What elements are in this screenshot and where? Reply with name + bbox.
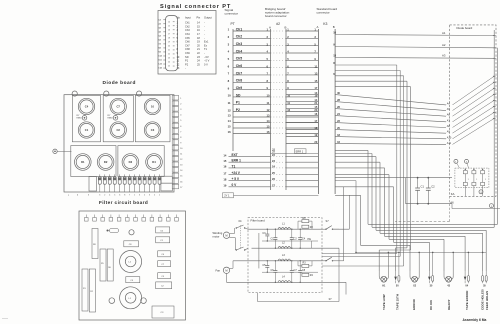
svg-text:2: 2 bbox=[154, 194, 155, 196]
wire filter cap mid rail upper bbox=[262, 240, 318, 242]
svg-text:D1: D1 bbox=[81, 160, 85, 164]
svg-text:13: 13 bbox=[180, 165, 183, 167]
svg-text:A9: A9 bbox=[447, 131, 451, 134]
svg-text:10: 10 bbox=[287, 94, 290, 98]
capacitor C6 filter bbox=[271, 260, 278, 283]
wire bus net 8 from row to lamp column bbox=[335, 195, 410, 271]
svg-text:22: 22 bbox=[197, 51, 200, 55]
svg-text:C7: C7 bbox=[161, 264, 165, 266]
svg-text:27: 27 bbox=[272, 183, 275, 187]
mounting hole top 1 bbox=[72, 91, 77, 96]
svg-text:13: 13 bbox=[333, 54, 336, 58]
svg-text:17: 17 bbox=[314, 86, 317, 90]
svg-text:4: 4 bbox=[109, 194, 110, 196]
svg-text:C2: C2 bbox=[294, 238, 298, 241]
wire connector #2 to K3 row 20 bbox=[286, 140, 318, 144]
svg-text:L3: L3 bbox=[282, 254, 285, 257]
svg-text:10: 10 bbox=[180, 148, 183, 150]
svg-text:15: 15 bbox=[267, 125, 270, 129]
svg-text:15: 15 bbox=[223, 159, 226, 163]
wire signal P1 PT pin 11 to connector #2 to K3 bbox=[228, 101, 319, 105]
diode D2 can bbox=[97, 154, 114, 171]
board bottom pin labels bbox=[68, 194, 89, 196]
svg-text:8: 8 bbox=[124, 194, 125, 196]
svg-text:15: 15 bbox=[168, 26, 170, 28]
svg-text:C9: C9 bbox=[130, 280, 134, 282]
svg-text:14: 14 bbox=[223, 153, 226, 157]
wire tall vertical net K3-B row to filter 3 bbox=[322, 72, 404, 266]
label PT pin 28 bbox=[272, 147, 275, 151]
lamp H1 TAPE LOW bbox=[379, 253, 388, 288]
svg-text:5: 5 bbox=[228, 57, 230, 61]
svg-text:1: 1 bbox=[180, 98, 182, 100]
svg-text:L1: L1 bbox=[129, 298, 132, 300]
svg-text:- 0V: - 0V bbox=[204, 55, 209, 59]
wire bus net 4 from row to lamp column bbox=[335, 162, 483, 271]
svg-text:A7: A7 bbox=[447, 119, 451, 122]
svg-text:18: 18 bbox=[223, 177, 226, 181]
page bottom edge mark bbox=[2, 318, 8, 320]
svg-text:-: - bbox=[204, 25, 205, 28]
svg-text:13: 13 bbox=[314, 72, 317, 76]
svg-text:Input: Input bbox=[185, 15, 191, 19]
svg-text:12: 12 bbox=[267, 108, 270, 112]
hole right of L1 bbox=[141, 298, 147, 304]
svg-text:-: - bbox=[204, 22, 205, 25]
svg-text:26: 26 bbox=[272, 177, 275, 181]
svg-text:3A: 3A bbox=[158, 27, 161, 30]
svg-text:DC ON: DC ON bbox=[429, 300, 433, 310]
svg-text:11: 11 bbox=[180, 154, 183, 156]
relay socket squares bottom right bbox=[161, 176, 172, 191]
capacitor C8 layout bbox=[124, 241, 139, 247]
fuse 50 TAPE 15TH bbox=[394, 253, 400, 288]
svg-text:19: 19 bbox=[168, 42, 170, 44]
connector #2 line B bbox=[285, 29, 287, 190]
label bridging board system adaptation board connector bbox=[265, 7, 290, 18]
wire PT pin 14 to connector #2 bbox=[228, 119, 319, 123]
connector J1 D-sub shell bbox=[166, 16, 178, 71]
capacitor C3 filter bbox=[262, 229, 269, 242]
wire +24 V row bbox=[223, 171, 318, 175]
svg-text:7: 7 bbox=[177, 43, 179, 47]
filter board dashed enclosure bbox=[248, 218, 322, 293]
capacitor C2 bbox=[426, 177, 435, 205]
svg-text:25: 25 bbox=[272, 171, 275, 175]
svg-text:3: 3 bbox=[180, 109, 182, 111]
svg-text:A5: A5 bbox=[447, 108, 451, 111]
svg-text:M: M bbox=[225, 268, 227, 272]
node circled 2 above diode module bbox=[465, 159, 469, 168]
svg-text:9: 9 bbox=[228, 86, 230, 90]
inductor L2 layout bbox=[120, 251, 142, 273]
svg-text:B: B bbox=[333, 25, 335, 29]
capacitor C2 filter bbox=[290, 229, 298, 249]
wire signal P2 PT pin 12 to connector #2 to K3 bbox=[228, 108, 319, 112]
svg-text:17: 17 bbox=[223, 171, 226, 175]
svg-text:7: 7 bbox=[228, 72, 230, 76]
label A6 node bbox=[450, 201, 454, 205]
svg-text:Ch3: Ch3 bbox=[236, 42, 243, 46]
diode group box lower 2 bbox=[118, 146, 164, 177]
svg-text:9: 9 bbox=[177, 51, 179, 55]
svg-text:ERROR: ERROR bbox=[412, 298, 416, 310]
resistor R1 layout bbox=[82, 269, 88, 311]
wire A7 from K3 to diode board bbox=[335, 94, 495, 122]
svg-text:24: 24 bbox=[197, 59, 200, 63]
svg-text:KA: KA bbox=[451, 192, 455, 196]
wire signal Ch8 PT pin 8 to connector #2 to K3 bbox=[228, 79, 319, 83]
svg-text:P1: P1 bbox=[236, 101, 240, 105]
diode unit D7 in module bbox=[481, 169, 486, 186]
wire A5 from K3 to diode board bbox=[335, 82, 495, 111]
svg-text:2: 2 bbox=[104, 194, 105, 196]
svg-text:Filter circuit board: Filter circuit board bbox=[99, 200, 148, 205]
svg-text:RM61: RM61 bbox=[108, 118, 113, 120]
wire filter rail 2 bbox=[252, 247, 323, 249]
svg-text:Pin: Pin bbox=[197, 15, 201, 19]
svg-text:11: 11 bbox=[314, 64, 317, 68]
svg-text:3: 3 bbox=[149, 194, 150, 196]
label connector #2 bbox=[276, 22, 280, 26]
svg-text:TAPE 15TH: TAPE 15TH bbox=[395, 294, 399, 310]
svg-text:23: 23 bbox=[197, 55, 200, 59]
svg-text:21: 21 bbox=[197, 47, 200, 51]
wire connector #2 to K3 row 15 bbox=[286, 105, 318, 109]
svg-text:K3: K3 bbox=[323, 22, 327, 26]
capacitor C7 can bbox=[110, 98, 126, 114]
wire connector #2 to K3 row 16 bbox=[286, 112, 318, 116]
svg-text:55: 55 bbox=[483, 285, 486, 288]
svg-text:-: - bbox=[204, 33, 205, 36]
svg-text:Ch4: Ch4 bbox=[236, 49, 243, 53]
svg-text:25: 25 bbox=[197, 62, 200, 66]
svg-text:14: 14 bbox=[228, 119, 231, 123]
lamp 43 READY bbox=[444, 253, 453, 288]
table header row bbox=[177, 15, 213, 19]
capacitor C1 bbox=[415, 177, 424, 205]
resistor R8 layout bbox=[92, 229, 98, 259]
svg-text:#2: #2 bbox=[276, 22, 280, 26]
svg-text:18: 18 bbox=[197, 36, 200, 40]
wire bus net 2 from row to lamp column bbox=[335, 154, 494, 228]
wire A9 from K3 to diode board bbox=[335, 106, 495, 133]
svg-text:24: 24 bbox=[168, 62, 170, 64]
diode D3 can bbox=[122, 154, 139, 171]
svg-text:-: - bbox=[204, 52, 205, 55]
label filter board bbox=[251, 218, 266, 222]
svg-text:T1: T1 bbox=[232, 164, 236, 168]
svg-text:C1: C1 bbox=[160, 240, 164, 242]
svg-text:L1: L1 bbox=[282, 223, 285, 226]
label standard board connector bbox=[317, 7, 338, 15]
wire PT pin 16 to connector #2 bbox=[228, 130, 319, 134]
wire A6 from K3 to diode board bbox=[335, 88, 495, 116]
label lamp CODE HOLES/ bbox=[481, 289, 485, 310]
svg-text:14: 14 bbox=[267, 119, 270, 123]
svg-text:13A: 13A bbox=[158, 67, 162, 70]
svg-text:D3: D3 bbox=[129, 160, 133, 164]
svg-text:11: 11 bbox=[228, 101, 231, 105]
svg-text:-: - bbox=[204, 29, 205, 32]
resistor R1 filter bbox=[298, 217, 312, 229]
svg-text:Ch9: Ch9 bbox=[185, 51, 190, 55]
wire filter rail4 exit bbox=[322, 282, 346, 294]
svg-text:6: 6 bbox=[228, 64, 230, 68]
svg-text:- 0 V: - 0 V bbox=[204, 59, 210, 63]
svg-text:C8: C8 bbox=[302, 269, 306, 272]
svg-text:1: 1 bbox=[476, 179, 477, 181]
svg-text:+ 5 V: + 5 V bbox=[232, 177, 240, 181]
label connector PT bbox=[231, 22, 235, 26]
svg-text:43: 43 bbox=[447, 285, 450, 288]
svg-text:L2: L2 bbox=[282, 242, 285, 245]
svg-text:25: 25 bbox=[168, 66, 170, 68]
wire signal Ch1 PT pin 1 to connector #2 to K3 bbox=[228, 27, 319, 31]
label connector #2 column A bbox=[269, 26, 271, 30]
svg-text:connector: connector bbox=[225, 12, 239, 16]
svg-text:Ch8: Ch8 bbox=[185, 47, 190, 51]
svg-text:ERR 1: ERR 1 bbox=[232, 159, 242, 163]
svg-text:TAPE LOW: TAPE LOW bbox=[382, 294, 386, 310]
svg-text:10: 10 bbox=[228, 94, 232, 98]
wire connector #2 to K3 row 18 bbox=[286, 126, 318, 130]
capacitor C9 layout bbox=[126, 277, 140, 283]
svg-text:3: 3 bbox=[177, 28, 179, 32]
capacitor C2 can bbox=[110, 122, 126, 138]
connector block bottom left of diode strip bbox=[89, 177, 97, 192]
motor M2 fan bbox=[216, 267, 230, 273]
svg-text:16: 16 bbox=[267, 130, 270, 134]
svg-text:D4: D4 bbox=[152, 160, 156, 164]
svg-text:connector: connector bbox=[317, 11, 330, 15]
label lamp DC ON bbox=[429, 300, 433, 310]
svg-text:-: - bbox=[185, 67, 186, 70]
connector J1 pin labels left bbox=[158, 19, 165, 70]
svg-text:5: 5 bbox=[114, 194, 115, 196]
svg-text:9A: 9A bbox=[158, 51, 161, 54]
svg-text:Ch2: Ch2 bbox=[185, 24, 190, 28]
svg-text:Ch3: Ch3 bbox=[185, 28, 190, 32]
diode D4 can bbox=[146, 154, 163, 171]
svg-text:TAPE ERROR: TAPE ERROR bbox=[465, 290, 469, 310]
svg-text:Diode board: Diode board bbox=[457, 26, 473, 30]
node circled 3 below diode module bbox=[479, 190, 483, 194]
svg-text:14: 14 bbox=[180, 170, 183, 172]
svg-text:6: 6 bbox=[119, 194, 120, 196]
svg-text:15: 15 bbox=[180, 176, 183, 178]
svg-text:M: M bbox=[225, 233, 227, 237]
svg-text:Ch5: Ch5 bbox=[185, 36, 190, 40]
label lamp FEED HOLES bbox=[485, 291, 489, 310]
svg-text:1: 1 bbox=[134, 194, 135, 196]
wire diode module outputs bbox=[465, 186, 482, 197]
wire S7 exit vertical up bbox=[333, 195, 350, 229]
wire connector #2 to K3 row 14 bbox=[286, 98, 318, 102]
svg-text:23: 23 bbox=[272, 159, 275, 163]
svg-text:C3: C3 bbox=[262, 232, 266, 235]
wire PT pin 13 to connector #2 bbox=[228, 114, 319, 118]
svg-text:X2: X2 bbox=[413, 285, 417, 288]
svg-text:3: 3 bbox=[88, 194, 89, 196]
svg-text:17: 17 bbox=[180, 187, 183, 189]
wire tall vertical net K3-B row to filter 2 bbox=[322, 70, 400, 256]
svg-text:10: 10 bbox=[177, 55, 180, 59]
wire common return rail with junction dots bbox=[335, 181, 486, 254]
svg-text:+24 V: +24 V bbox=[232, 171, 241, 175]
svg-text:16: 16 bbox=[228, 130, 231, 134]
wire bus net 9 from row to lamp column bbox=[335, 81, 407, 271]
label 3Y bbox=[329, 297, 332, 301]
svg-text:28: 28 bbox=[272, 147, 275, 151]
svg-text:-: - bbox=[204, 37, 205, 40]
wire fan to rail 3 bbox=[230, 261, 252, 269]
svg-text:A4: A4 bbox=[447, 102, 451, 105]
svg-text:1: 1 bbox=[468, 179, 469, 181]
svg-text:18: 18 bbox=[168, 38, 170, 40]
wire bus net 3 from row to lamp column bbox=[335, 157, 486, 271]
svg-text:A8: A8 bbox=[447, 125, 451, 128]
inductor L1 layout bbox=[120, 287, 142, 309]
svg-text:8: 8 bbox=[177, 47, 179, 51]
resistor R3 filter bbox=[298, 261, 312, 268]
svg-text:2: 2 bbox=[228, 35, 230, 39]
filter board top connector pads bbox=[85, 215, 179, 222]
capacitor C4 can bbox=[78, 98, 94, 114]
svg-text:16: 16 bbox=[197, 28, 200, 32]
switch S4 ganged link dashed bbox=[239, 225, 241, 249]
svg-text:Ch5: Ch5 bbox=[236, 57, 243, 61]
capacitor C4 filter bbox=[298, 229, 306, 249]
fuse 55 CODE HOLES FEED HOLES pair bbox=[482, 271, 488, 288]
svg-text:8A: 8A bbox=[158, 47, 161, 50]
connector #2 line A bbox=[270, 29, 272, 190]
svg-text:R4: R4 bbox=[310, 274, 314, 277]
svg-text:FEED HOLES: FEED HOLES bbox=[485, 291, 489, 310]
wire signal Ch7 PT pin 7 to connector #2 to K3 bbox=[228, 71, 319, 75]
switch S8 lower right bbox=[322, 257, 344, 261]
svg-text:7: 7 bbox=[129, 194, 130, 196]
wire signal Ch6 PT pin 6 to connector #2 to K3 bbox=[228, 64, 319, 68]
capacitor group box 2 bbox=[103, 95, 133, 141]
capacitor C5 filter bbox=[262, 260, 269, 273]
wire KA output rail bbox=[452, 204, 500, 209]
wire filter cap mid rail lower bbox=[262, 271, 318, 273]
wire bus net 7 from row to lamp column bbox=[335, 187, 429, 271]
svg-text:3: 3 bbox=[139, 194, 140, 196]
inductor L3 filter bbox=[278, 254, 291, 261]
capacitor C3 layout bbox=[152, 306, 174, 318]
resistor R2 filter bbox=[302, 225, 314, 229]
label lamp TAPE LOW bbox=[382, 294, 386, 310]
svg-text:R1: R1 bbox=[83, 288, 86, 290]
wire connector #2 to K3 row 13 bbox=[286, 91, 318, 95]
diode strip D5-D17 bbox=[98, 174, 161, 196]
svg-text:22: 22 bbox=[272, 153, 275, 157]
label diode board (right) bbox=[457, 26, 473, 30]
svg-text:A11: A11 bbox=[447, 142, 452, 145]
wire filter rail 4 bbox=[248, 281, 322, 283]
svg-text:1: 1 bbox=[485, 179, 486, 181]
svg-text:C4: C4 bbox=[85, 105, 89, 109]
wire A10 from K3 to diode board bbox=[335, 112, 495, 139]
svg-text:19: 19 bbox=[197, 40, 200, 44]
svg-text:19: 19 bbox=[223, 184, 226, 188]
diode group box lower 1 bbox=[71, 146, 116, 177]
svg-text:17: 17 bbox=[168, 34, 170, 36]
mounting hole top 3 bbox=[137, 91, 142, 96]
svg-text:2Y 1: 2Y 1 bbox=[224, 194, 230, 198]
capacitor C1 filter bbox=[271, 229, 278, 249]
capacitor C1 layout bbox=[156, 237, 170, 243]
wire ERR1 row with boxed label bbox=[271, 149, 319, 154]
svg-text:Ch2: Ch2 bbox=[236, 35, 243, 39]
label lamp TAPE 15TH bbox=[395, 294, 399, 310]
hole small top bbox=[129, 230, 134, 235]
svg-text:1A: 1A bbox=[158, 19, 161, 22]
svg-text:b: b bbox=[77, 194, 78, 196]
svg-text:9: 9 bbox=[180, 142, 182, 144]
svg-text:R2: R2 bbox=[90, 291, 93, 293]
wire diode board internal vertical A1 bbox=[493, 30, 495, 227]
wire A8 from K3 to diode board bbox=[335, 100, 495, 128]
title Signal connector PT bbox=[160, 4, 231, 10]
wire signal Ch2 PT pin 2 to connector #2 to K3 bbox=[228, 35, 319, 39]
svg-text:SD: SD bbox=[185, 55, 189, 59]
svg-text:24: 24 bbox=[272, 165, 275, 169]
connector PT body line bbox=[232, 29, 234, 151]
switch S4 pole 2 bbox=[230, 238, 249, 251]
capacitor C4 layout bbox=[158, 251, 171, 257]
wire connector #2 to K3 row 17 bbox=[286, 119, 318, 123]
svg-text:13: 13 bbox=[228, 114, 231, 118]
svg-text:Ch7: Ch7 bbox=[185, 43, 190, 47]
capacitor C1 can bbox=[78, 122, 94, 138]
svg-text:15: 15 bbox=[197, 24, 200, 28]
svg-text:Fan: Fan bbox=[216, 268, 221, 272]
svg-text:16: 16 bbox=[168, 30, 170, 32]
wire bus net 10 from row to lamp column bbox=[335, 87, 410, 271]
wire signal Ch9 PT pin 9 to connector #2 to K3 bbox=[228, 86, 319, 90]
svg-text:13: 13 bbox=[177, 66, 180, 70]
svg-text:14: 14 bbox=[168, 22, 170, 24]
svg-text:A3: A3 bbox=[442, 54, 446, 58]
svg-text:A2: A2 bbox=[442, 43, 446, 47]
svg-text:1: 1 bbox=[228, 28, 230, 32]
svg-text:Ch8: Ch8 bbox=[236, 79, 243, 83]
svg-text:4: 4 bbox=[228, 50, 230, 54]
svg-text:C7: C7 bbox=[116, 105, 120, 109]
svg-text:12: 12 bbox=[177, 62, 180, 66]
svg-text:20: 20 bbox=[168, 46, 170, 48]
svg-text:RM61: RM61 bbox=[77, 118, 82, 120]
svg-text:4: 4 bbox=[180, 115, 182, 117]
inductor L1 filter bbox=[278, 223, 291, 230]
svg-text:a: a bbox=[68, 194, 70, 196]
svg-text:22: 22 bbox=[168, 54, 170, 56]
node circled 1 above diode module bbox=[454, 159, 460, 168]
svg-text:6: 6 bbox=[180, 126, 182, 128]
label PE bbox=[308, 237, 312, 248]
diode module dashed box bbox=[455, 168, 489, 188]
svg-text:PT: PT bbox=[231, 22, 235, 26]
svg-text:1: 1 bbox=[177, 21, 179, 25]
svg-text:A1: A1 bbox=[442, 31, 446, 35]
svg-text:Ch1: Ch1 bbox=[236, 27, 243, 31]
svg-text:12A: 12A bbox=[158, 63, 162, 66]
svg-text:3Y: 3Y bbox=[329, 297, 332, 301]
connector K3 line A bbox=[317, 29, 319, 194]
